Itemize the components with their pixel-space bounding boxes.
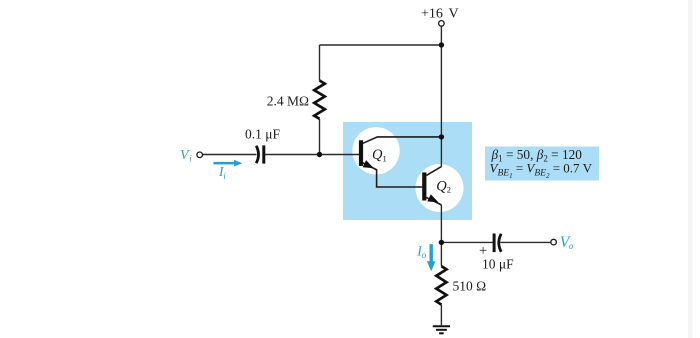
svg-text:+16 V: +16 V — [421, 7, 459, 22]
svg-text:i: i — [223, 171, 226, 181]
svg-text:510 Ω: 510 Ω — [453, 279, 487, 294]
svg-text:Q: Q — [436, 178, 447, 194]
svg-text:2: 2 — [447, 184, 451, 194]
svg-text:+: + — [479, 243, 487, 259]
svg-text:1: 1 — [383, 153, 387, 163]
svg-text:Q: Q — [372, 147, 383, 163]
svg-text:o: o — [569, 242, 574, 252]
svg-text:0.1 μF: 0.1 μF — [245, 127, 280, 142]
svg-text:o: o — [422, 251, 427, 261]
svg-text:2.4 MΩ: 2.4 MΩ — [267, 94, 309, 109]
svg-text:i: i — [189, 153, 192, 163]
